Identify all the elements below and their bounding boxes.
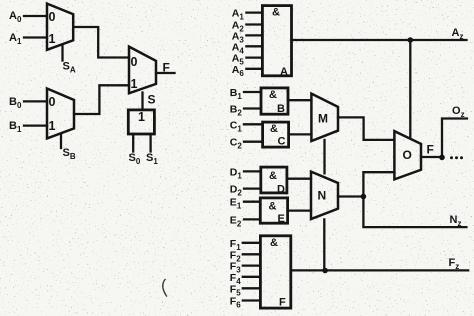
mux M xyxy=(311,94,338,142)
svg-text:1: 1 xyxy=(49,119,56,133)
AND gate F (6-input) xyxy=(260,236,290,309)
AND gate D xyxy=(261,167,287,195)
mux SB (2:1 multiplexer, left bottom) xyxy=(47,89,74,139)
input A6 xyxy=(232,64,263,78)
svg-text:F: F xyxy=(163,61,170,75)
wire S1 and label xyxy=(146,134,158,166)
svg-text:1: 1 xyxy=(49,32,56,46)
svg-text:&: & xyxy=(272,7,280,19)
input B2 xyxy=(230,104,261,118)
wire M output to mux O input xyxy=(338,117,394,139)
input B1 xyxy=(9,120,47,134)
node F junction xyxy=(439,155,445,161)
svg-text:0: 0 xyxy=(49,95,56,109)
select S wire and label xyxy=(143,93,156,110)
wire N junction up to mux O lower input xyxy=(363,172,394,196)
wire Az output xyxy=(292,39,467,41)
input F5 xyxy=(230,283,261,297)
wire O select (from Az line down to mux O) xyxy=(409,40,411,138)
input F4 xyxy=(230,272,261,286)
svg-text:&: & xyxy=(270,123,278,135)
svg-text:&: & xyxy=(269,170,277,182)
select source box 1 xyxy=(128,110,154,134)
output F wire and label xyxy=(156,61,175,75)
input A0 xyxy=(9,10,47,24)
wire N select down to Fz line xyxy=(323,219,325,270)
svg-text:F: F xyxy=(279,297,286,309)
svg-text:S: S xyxy=(148,93,156,107)
wire N output xyxy=(338,195,363,197)
input F6 xyxy=(230,296,261,310)
wire M select to N select link xyxy=(323,140,325,173)
mux S (output 2:1 multiplexer, center) xyxy=(129,47,156,94)
svg-text:O: O xyxy=(403,148,412,162)
input A1 xyxy=(232,8,263,22)
svg-text:C: C xyxy=(278,136,286,148)
input C1 xyxy=(230,119,263,133)
svg-text:F: F xyxy=(427,143,434,157)
wire D to mux N xyxy=(287,178,311,180)
mux N xyxy=(311,172,338,220)
mux O xyxy=(394,131,421,179)
input A4 xyxy=(232,41,263,55)
AND gate B xyxy=(261,88,288,115)
input A2 xyxy=(232,20,263,34)
AND gate A (6-input) xyxy=(262,6,291,78)
select SB wire and label xyxy=(61,134,76,161)
svg-text:E: E xyxy=(278,213,285,225)
svg-text:1: 1 xyxy=(131,77,138,91)
wire mux SA output to mux S input 0 xyxy=(73,27,129,58)
input A3 xyxy=(232,30,263,44)
mux SA (2:1 multiplexer, left top) xyxy=(47,4,73,50)
svg-text:N: N xyxy=(318,189,327,203)
wire S0 and label xyxy=(129,134,141,166)
wire mux SB output to mux S input 1 xyxy=(74,85,129,114)
input D1 xyxy=(230,166,261,180)
svg-text:&: & xyxy=(269,89,277,101)
wire Fz output xyxy=(291,257,468,271)
input C2 xyxy=(230,137,263,151)
svg-text:M: M xyxy=(318,112,328,126)
input D2 xyxy=(230,184,261,198)
svg-text:D: D xyxy=(277,184,285,196)
wire B to mux M xyxy=(288,99,311,101)
svg-text:0: 0 xyxy=(49,10,56,24)
ellipsis dots after F xyxy=(450,156,463,159)
svg-text:A: A xyxy=(280,66,288,78)
wire C to mux M xyxy=(289,133,312,135)
svg-text:B: B xyxy=(277,103,285,115)
input E1 xyxy=(230,197,260,211)
input F3 xyxy=(230,261,261,275)
wire Oz (junction up then right) xyxy=(442,105,467,157)
input B0 xyxy=(9,96,47,110)
input A5 xyxy=(232,53,263,67)
select SA wire and label xyxy=(63,46,76,74)
wire E to mux N xyxy=(288,209,311,211)
AND gate E xyxy=(260,198,287,225)
svg-text:&: & xyxy=(269,201,277,213)
node Az junction xyxy=(408,37,414,43)
svg-text:&: & xyxy=(270,237,278,249)
svg-text:1: 1 xyxy=(138,110,145,124)
AND gate C xyxy=(263,122,289,147)
node Fz junction xyxy=(322,268,328,274)
wire Nz (junction down then right) xyxy=(363,197,466,229)
input E2 xyxy=(230,214,260,228)
svg-text:0: 0 xyxy=(131,55,138,69)
output F wire and label xyxy=(421,143,442,158)
input F1 xyxy=(230,238,261,252)
input F2 xyxy=(230,249,261,263)
node N junction xyxy=(361,194,367,200)
input B1 xyxy=(230,87,261,101)
input A1 xyxy=(9,32,47,46)
